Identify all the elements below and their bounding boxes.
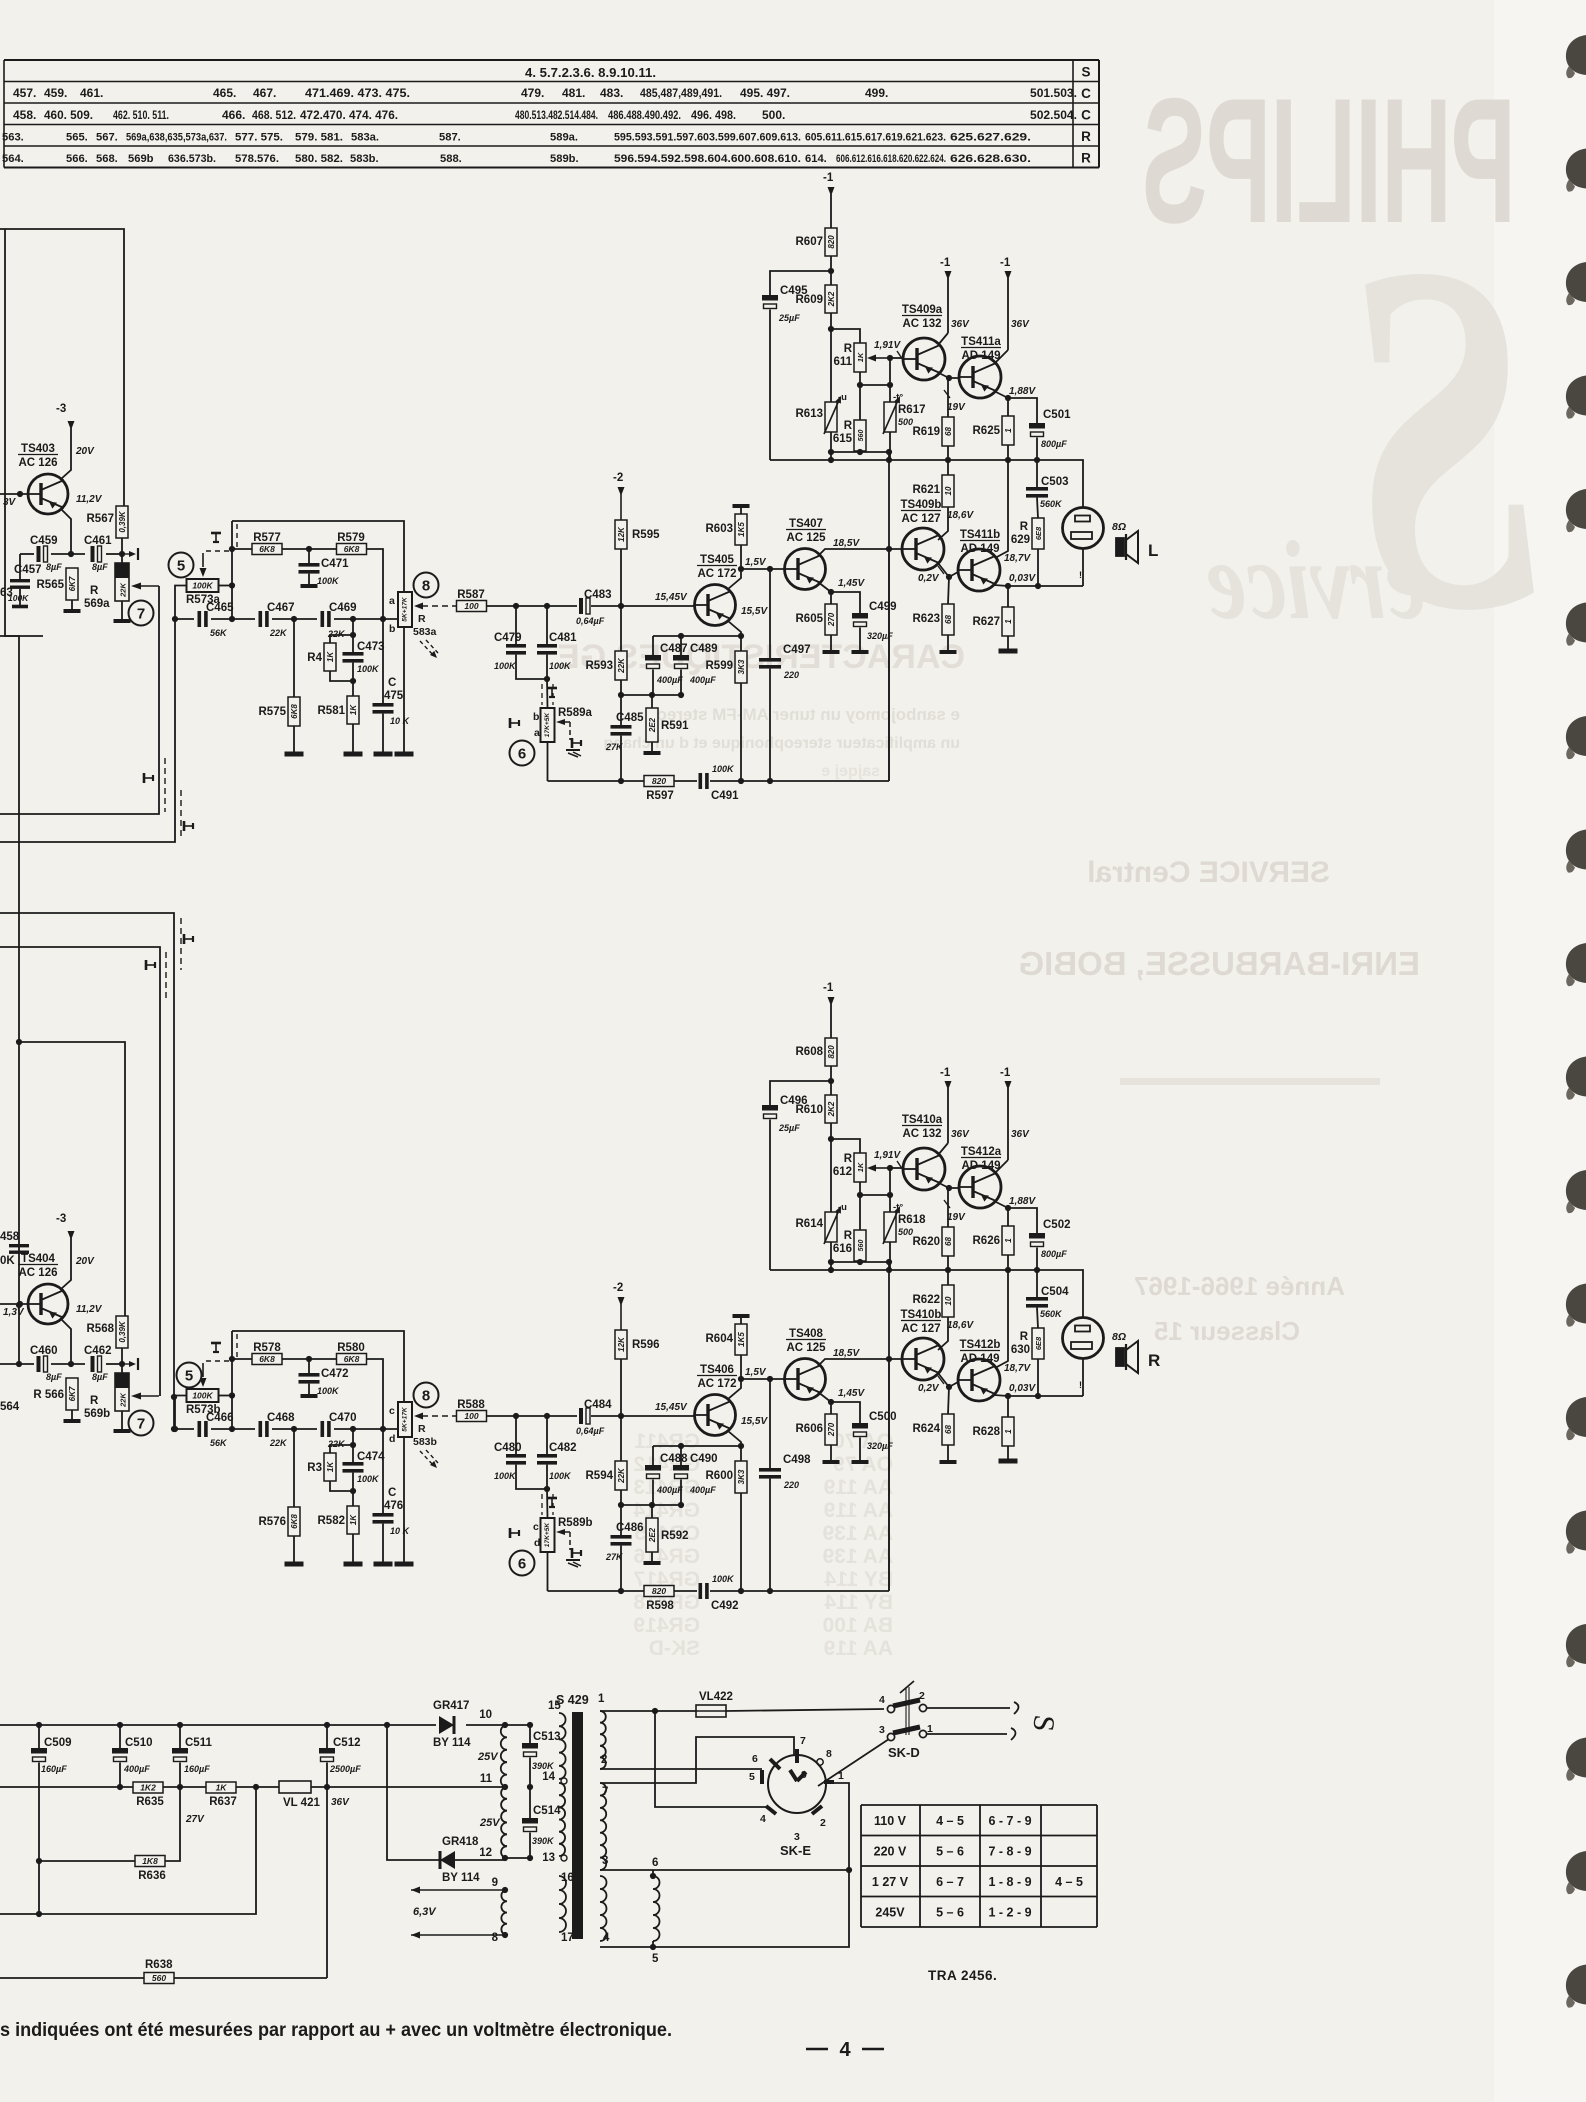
svg-text:1 - 2 - 9: 1 - 2 - 9 (988, 1906, 1031, 1920)
resistor R614 (796, 1212, 838, 1242)
capacitor C509 (31, 1737, 72, 1774)
svg-text:567.: 567. (96, 132, 118, 144)
svg-text:GR414: GR414 (633, 1499, 700, 1522)
wire R624 to bar (947, 1445, 949, 1460)
svg-text:10: 10 (944, 486, 953, 495)
svg-text:6K8: 6K8 (259, 1354, 275, 1364)
svg-text:462. 510. 511.: 462. 510. 511. (113, 108, 169, 122)
junction (857, 1192, 863, 1198)
junction (1005, 395, 1011, 401)
junction (177, 1784, 183, 1790)
wire R629 bottom (1037, 549, 1039, 586)
svg-text:C482: C482 (549, 1442, 577, 1454)
wire C512 leads (326, 1725, 328, 1748)
svg-text:R597: R597 (646, 790, 674, 802)
wire pin1 line with fuse (600, 1710, 696, 1712)
resistor R599 (706, 651, 748, 683)
wire wiper of R569b (131, 1393, 159, 1400)
wire R569b to terminal (121, 1411, 123, 1429)
wire emitter of TS408 (818, 1392, 831, 1414)
svg-text:457.: 457. (13, 86, 36, 100)
junction (886, 457, 892, 463)
junction (828, 457, 834, 463)
svg-text:C481: C481 (549, 632, 577, 644)
wire GR418 line (387, 1725, 440, 1860)
junction (229, 1426, 235, 1432)
transistor TS412b (958, 1339, 1000, 1401)
svg-text:5 – 6: 5 – 6 (936, 1845, 964, 1859)
wire C509 leads (38, 1725, 40, 1748)
svg-text:R637: R637 (209, 1796, 237, 1808)
wire pin7 plug line (600, 1737, 794, 1783)
node 5 (circled) (177, 1363, 202, 1388)
junction (618, 1588, 624, 1594)
svg-text:579. 581.: 579. 581. (295, 132, 343, 144)
output jack (1063, 1318, 1104, 1359)
label R 616 (833, 1230, 853, 1255)
svg-text:C465: C465 (206, 602, 234, 614)
resistor R592 (646, 1518, 689, 1552)
wire wiper of R589b (556, 1529, 570, 1550)
svg-text:1K5: 1K5 (737, 1332, 746, 1347)
wire R608 to R610 (830, 1066, 832, 1095)
svg-text:TS407: TS407 (789, 518, 823, 530)
svg-text:100K: 100K (549, 1471, 572, 1481)
svg-text:481.: 481. (562, 86, 585, 100)
wire C483 to base node (591, 605, 694, 607)
capacitor C473 (343, 641, 385, 674)
wire left vertical of tone block (231, 1331, 233, 1429)
wire R604 top stub (740, 1318, 742, 1324)
svg-text:16: 16 (561, 1872, 574, 1884)
svg-text:22K: 22K (269, 628, 288, 638)
resistor R573a (186, 579, 220, 606)
svg-text:AD 149: AD 149 (962, 1160, 1001, 1172)
svg-text:AA 119: AA 119 (824, 1499, 893, 1522)
svg-text:R: R (90, 1395, 99, 1407)
svg-text:C491: C491 (711, 790, 739, 802)
tick (944, 1200, 950, 1208)
chassis bar (344, 752, 363, 757)
svg-text:AD 149: AD 149 (961, 1353, 1000, 1365)
transistor TS407 (784, 518, 826, 590)
svg-text:-t°: -t° (893, 392, 903, 403)
wire R577-R579 row (232, 548, 252, 550)
wire collector of TS408 (818, 1359, 902, 1366)
svg-text:471.469. 473. 475.: 471.469. 473. 475. (305, 86, 410, 100)
svg-text:2E2: 2E2 (648, 1527, 657, 1543)
svg-text:589b.: 589b. (550, 153, 579, 165)
junction (767, 566, 773, 572)
svg-text:36V: 36V (951, 319, 970, 330)
svg-text:100: 100 (464, 601, 478, 611)
svg-text:AD 149: AD 149 (962, 350, 1001, 362)
svg-text:458: 458 (0, 1231, 20, 1243)
svg-text:C473: C473 (357, 641, 385, 653)
svg-text:0,2V: 0,2V (918, 1383, 940, 1394)
svg-text:1K: 1K (326, 1461, 335, 1472)
resistor R573b (186, 1389, 221, 1416)
wire R595 to R593 (620, 549, 622, 651)
wire base of TS408 (741, 1378, 784, 1380)
svg-text:L: L (1148, 541, 1158, 560)
svg-text:6K7: 6K7 (68, 576, 77, 591)
resistor R621 (913, 475, 955, 507)
svg-text:R579: R579 (337, 532, 365, 544)
wire R573a right lead (219, 585, 233, 587)
wire R569a to terminal (121, 601, 123, 619)
chassis bar (285, 1562, 304, 1567)
svg-text:1: 1 (1004, 428, 1013, 433)
wire R599 to bus (740, 683, 742, 781)
wire R636 left lead (39, 1860, 135, 1862)
wire feedback tap (888, 1359, 890, 1591)
svg-text:6E8: 6E8 (1034, 526, 1043, 540)
label R 611 (833, 343, 852, 368)
resistor R618 (884, 1212, 896, 1242)
resistor R597 (644, 776, 674, 803)
wire R573b right lead (219, 1395, 233, 1397)
svg-text:18,6V: 18,6V (947, 1320, 974, 1331)
svg-text:467.: 467. (253, 86, 276, 100)
svg-text:TS412a: TS412a (961, 1146, 1002, 1158)
svg-text:R: R (418, 1423, 426, 1435)
svg-text:C480: C480 (494, 1442, 522, 1454)
wire R591 (651, 695, 653, 708)
connector SK-E (749, 1735, 844, 1858)
svg-text:15,5V: 15,5V (741, 1416, 768, 1427)
junction (17, 491, 23, 497)
svg-text:R598: R598 (646, 1600, 674, 1612)
svg-text:C514: C514 (533, 1805, 561, 1817)
junction (229, 616, 235, 622)
junction (1035, 583, 1041, 589)
svg-text:495. 497.: 495. 497. (740, 86, 790, 100)
junction (291, 1426, 297, 1432)
svg-text:100K: 100K (712, 1574, 735, 1584)
svg-text:1,5V: 1,5V (745, 557, 767, 568)
svg-text:2: 2 (601, 1754, 607, 1766)
svg-text:1 27 V: 1 27 V (872, 1875, 909, 1889)
wire R620 branch (947, 1188, 949, 1227)
svg-text:10 K: 10 K (390, 1526, 411, 1536)
svg-text:578.576.: 578.576. (235, 153, 279, 165)
power rail -3 (56, 403, 75, 430)
power rail -2 (613, 472, 625, 520)
svg-text:458.: 458. (13, 108, 36, 122)
wire emitter of TS409b to base of TS411b (938, 563, 958, 577)
svg-text:AC 125: AC 125 (787, 532, 827, 544)
wire lower bus (548, 1590, 645, 1592)
junction (1005, 1205, 1011, 1211)
wire R565 to ground bar (71, 600, 73, 609)
potentiometer R569a (volume) (84, 563, 129, 610)
junction (828, 1078, 834, 1084)
svg-text:17: 17 (561, 1932, 574, 1944)
svg-text:R565: R565 (37, 579, 65, 591)
capacitor C498 (759, 1454, 811, 1490)
capacitor C491 (699, 764, 740, 802)
svg-text:1,3V: 1,3V (3, 1307, 25, 1318)
svg-text:36V: 36V (1011, 1129, 1030, 1140)
junction (1005, 1393, 1011, 1399)
wire R638 line (0, 1977, 144, 1979)
svg-text:25µF: 25µF (778, 313, 800, 323)
wire R581 to ground (352, 724, 354, 752)
junction (527, 1855, 533, 1861)
capacitor C512 (319, 1737, 361, 1774)
junction (652, 1708, 658, 1714)
svg-text:7: 7 (137, 1416, 145, 1433)
svg-text:588.: 588. (440, 153, 462, 165)
junction (738, 566, 744, 572)
resistor R596 (615, 1330, 660, 1359)
wire R605 to bar (830, 635, 832, 650)
svg-text:-3: -3 (56, 1213, 66, 1225)
power rail -1 (upper out) (940, 1067, 952, 1143)
wire R577-R579 row (232, 1358, 252, 1360)
svg-text:5 – 6: 5 – 6 (936, 1906, 964, 1920)
svg-text:800µF: 800µF (1041, 1249, 1067, 1259)
terminal 13 (561, 1855, 567, 1861)
junction (502, 1784, 508, 1790)
test point probe (144, 773, 153, 783)
resistor R607 (796, 228, 838, 256)
svg-text:580. 582.: 580. 582. (295, 153, 343, 165)
power rail -1 (upper out 2) (1000, 257, 1012, 350)
wire R600 to bus (740, 1493, 742, 1591)
svg-text:5: 5 (185, 1368, 193, 1385)
svg-text:18,7V: 18,7V (1004, 1363, 1031, 1374)
junction (846, 1867, 852, 1873)
svg-text:R624: R624 (913, 1423, 941, 1435)
wire R583a bottom to chassis (403, 627, 405, 752)
junction (946, 375, 952, 381)
diode GR418 (440, 1836, 480, 1884)
wire R606 to bar (830, 1445, 832, 1460)
svg-text:625.627.629.: 625.627.629. (950, 132, 1031, 144)
svg-text:BY 114: BY 114 (433, 1737, 471, 1749)
junction (350, 616, 356, 622)
svg-text:596.594.592.598.604.600.608.61: 596.594.592.598.604.600.608.610. (614, 153, 801, 165)
svg-text:R594: R594 (586, 1470, 614, 1482)
wire ch2 tone feed line (0, 913, 174, 1429)
resistor R625 (973, 416, 1015, 445)
capacitor C471 (299, 558, 350, 586)
svg-text:AC 126: AC 126 (19, 1267, 58, 1279)
resistor R578 (252, 1342, 282, 1365)
svg-text:583a: 583a (413, 626, 437, 638)
table row R numbers (second) (2, 153, 1031, 165)
wire wiper of R569a (131, 583, 159, 590)
wire output node (1008, 1395, 1083, 1397)
svg-text:15: 15 (548, 1700, 561, 1712)
svg-text:C468: C468 (267, 1412, 295, 1424)
wire R 566 to ground bar (71, 1410, 73, 1419)
wire C471 to stub (308, 549, 310, 563)
resistor R609 (796, 285, 838, 313)
svg-text:AC 132: AC 132 (903, 1128, 942, 1140)
svg-text:1K: 1K (856, 352, 865, 362)
svg-text:SK-E: SK-E (780, 1843, 811, 1858)
resistor R606 (796, 1414, 838, 1445)
wire emitter of TS411a up (996, 350, 1008, 362)
resistor R582 (318, 1506, 360, 1534)
wire R619 branch (947, 378, 949, 417)
transistor TS409a (902, 304, 945, 380)
svg-text:496. 498.: 496. 498. (691, 108, 736, 122)
resistor R3 (307, 1453, 336, 1481)
svg-text:100K: 100K (357, 1474, 380, 1484)
reference designator table (4, 60, 1099, 168)
svg-text:TS410b: TS410b (901, 1309, 942, 1321)
junction (527, 1722, 533, 1728)
junction (36, 1858, 42, 1864)
wire R575 branch (293, 619, 295, 697)
svg-text:R567: R567 (87, 513, 115, 525)
wire R620 to bus (947, 1256, 949, 1270)
svg-text:499.: 499. (865, 86, 888, 100)
chassis mark (566, 750, 581, 757)
chassis bar (395, 752, 414, 757)
connector pin symbol (122, 1358, 138, 1370)
capacitor C490 (673, 1453, 718, 1495)
wire R582 to ground (352, 1534, 354, 1562)
svg-text:R638: R638 (145, 1959, 173, 1971)
wire emitter of TS407 (818, 582, 831, 604)
capacitor C470 (321, 1412, 357, 1449)
svg-text:800µF: 800µF (1041, 439, 1067, 449)
svg-text:564.: 564. (2, 153, 24, 165)
wire R4 / C473 network (352, 619, 354, 652)
wire R627 leads (1007, 586, 1009, 607)
wire R567 lower lead (121, 538, 123, 563)
winding 11-12 (501, 1787, 507, 1858)
wire pin4 plug line (655, 1711, 768, 1807)
svg-text:C512: C512 (333, 1737, 361, 1749)
svg-text:C503: C503 (1041, 476, 1069, 488)
resistor R636 (135, 1856, 166, 1883)
capacitor C465 (198, 602, 235, 638)
svg-text:583b: 583b (413, 1436, 437, 1448)
wire R593 to C485 (620, 680, 622, 725)
wire R603 top stub (740, 508, 742, 514)
svg-text:c: c (389, 1405, 395, 1417)
wire R589a bottom (547, 742, 549, 781)
svg-text:!: ! (1079, 1380, 1082, 1390)
wire wiper of R583b (dashed) (414, 1413, 456, 1420)
svg-text:0K: 0K (0, 1255, 15, 1267)
svg-text:1K: 1K (349, 1514, 358, 1525)
capacitor C503 (1026, 476, 1069, 509)
resistor R600 (706, 1461, 748, 1493)
wire 6.3V winding lines (411, 1887, 505, 1939)
svg-text:6K8: 6K8 (290, 704, 299, 719)
svg-text:TS411b: TS411b (960, 529, 1000, 541)
wire ch1 tone line to lower page (0, 619, 175, 842)
svg-text:564: 564 (0, 1401, 20, 1413)
wire emitter of TS409a to base of TS411a (939, 373, 958, 378)
svg-text:15,5V: 15,5V (741, 606, 768, 617)
wire collector of TS411a (996, 392, 1008, 416)
wire R575 to ground (293, 726, 295, 752)
wire R589b bottom (547, 1552, 549, 1591)
junction (767, 1588, 773, 1594)
junction (380, 1426, 386, 1432)
wire left input box (ch1) (0, 229, 124, 506)
junction (828, 1259, 834, 1265)
svg-text:C: C (388, 677, 396, 689)
wire emitter of TS406 (728, 1431, 741, 1461)
svg-text:R577: R577 (253, 532, 281, 544)
svg-text:R609: R609 (796, 294, 824, 306)
svg-text:R: R (844, 343, 853, 355)
wire R621 leads (947, 460, 949, 475)
svg-text:C469: C469 (329, 602, 357, 614)
wire dashed screen (541, 684, 543, 705)
svg-text:8: 8 (492, 1932, 499, 1944)
svg-text:6K8: 6K8 (290, 1514, 299, 1529)
svg-text:400µF: 400µF (656, 1485, 683, 1495)
junction (945, 457, 951, 463)
test point probe (572, 738, 581, 748)
svg-text:8: 8 (422, 578, 430, 595)
junction (1034, 1267, 1040, 1273)
junction (618, 603, 624, 609)
wire C486 to bus (620, 1546, 622, 1591)
svg-text:R 566: R 566 (33, 1389, 64, 1401)
svg-text:569a,638,635,573a,637.: 569a,638,635,573a,637. (126, 132, 227, 144)
wire wiper of R589a (556, 719, 570, 740)
svg-text:R620: R620 (913, 1236, 941, 1248)
svg-text:615: 615 (833, 433, 853, 445)
svg-text:0,64µF: 0,64µF (576, 616, 605, 626)
svg-text:R608: R608 (796, 1046, 824, 1058)
junction (172, 616, 178, 622)
wire arrow into R573a (200, 553, 207, 577)
svg-text:820: 820 (652, 776, 666, 786)
svg-text:Classeur 15: Classeur 15 (1154, 1316, 1300, 1346)
resistor R593 (586, 651, 628, 680)
terminal bar (114, 619, 131, 623)
wire C472 to stub (308, 1359, 310, 1373)
svg-text:6K7: 6K7 (68, 1386, 77, 1401)
junction (618, 692, 624, 698)
junction (16, 1302, 22, 1308)
junction (828, 589, 834, 595)
node 6 (circled) (510, 741, 535, 766)
svg-text:AD 149: AD 149 (961, 543, 1000, 555)
svg-text:R593: R593 (586, 660, 614, 672)
wire R576 branch (293, 1429, 295, 1507)
winding 1-2 (600, 1711, 606, 1769)
output jack (1063, 508, 1104, 549)
svg-text:583b.: 583b. (350, 153, 379, 165)
wire collector of TS412b (994, 1395, 1008, 1396)
wire mid supply bus (770, 1269, 1037, 1271)
capacitor C486 (605, 1522, 644, 1562)
svg-text:C462: C462 (84, 1345, 112, 1357)
svg-text:820: 820 (827, 235, 836, 249)
node 8 (circled) (414, 1383, 439, 1408)
resistor R577 (252, 532, 282, 555)
svg-text:AA 119: AA 119 (824, 1476, 893, 1499)
svg-text:15,45V: 15,45V (655, 592, 688, 603)
label R 612 (833, 1153, 853, 1178)
wire dashed screen ch2 (180, 918, 182, 970)
svg-text:577. 575.: 577. 575. (235, 132, 283, 144)
svg-text:AC 172: AC 172 (698, 1378, 737, 1390)
